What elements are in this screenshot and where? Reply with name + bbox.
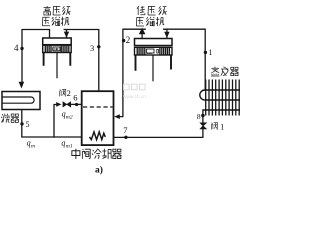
node 8 bbox=[201, 114, 205, 118]
svg-text:2: 2 bbox=[67, 88, 71, 98]
wire: condenser outlet to liquid line (node 5) bbox=[22, 110, 82, 138]
svg-text:5: 5 bbox=[26, 120, 30, 129]
arrow LP discharge up bbox=[139, 28, 146, 35]
wire: valve2 branch riser bbox=[54, 105, 58, 138]
node 4 bbox=[20, 47, 23, 50]
label: condenser bbox=[1, 114, 19, 123]
arrow LP suction down bbox=[164, 32, 169, 38]
svg-text:m2: m2 bbox=[66, 115, 73, 121]
compressor U2 (high pressure stage) bbox=[43, 38, 71, 78]
svg-text:m1: m1 bbox=[66, 144, 73, 150]
arrow into condenser bbox=[19, 82, 25, 89]
svg-text:a): a) bbox=[95, 164, 103, 175]
node 1 bbox=[204, 51, 207, 54]
label: intermediate cooler bbox=[72, 149, 122, 159]
wire: LP discharge to intermediate cooler (line 2) bbox=[117, 29, 145, 116]
svg-text:2: 2 bbox=[126, 35, 131, 45]
wire: cooler coil line left bbox=[82, 136, 90, 138]
wire: valve2 to cooler (node 6) bbox=[71, 103, 82, 105]
svg-text:q: q bbox=[27, 139, 31, 148]
wire: HP suction pipe (node3 riser to compressor top) bbox=[64, 30, 99, 91]
arrow into valve2 bbox=[56, 102, 61, 107]
arrow HP suction down bbox=[64, 32, 69, 38]
wire: cooler coil line right + liquid line to valve1 (node 7) bbox=[105, 129, 203, 137]
condenser bbox=[2, 92, 41, 110]
label: low pressure compressor bbox=[137, 6, 167, 15]
node 6 bbox=[75, 103, 78, 106]
wire: valve1 to evaporator (node 8) bbox=[202, 110, 204, 123]
node 5 bbox=[20, 122, 23, 125]
label: evaporator bbox=[211, 67, 239, 76]
evaporator coil bbox=[200, 80, 240, 116]
svg-text:m: m bbox=[31, 144, 35, 150]
svg-text:q: q bbox=[61, 139, 65, 148]
svg-text:8: 8 bbox=[197, 112, 201, 121]
arrow into cooler right wall bbox=[114, 114, 120, 119]
svg-text:1: 1 bbox=[209, 48, 213, 57]
valve V1 (vertical) bbox=[199, 123, 207, 130]
coil zigzag bbox=[90, 132, 106, 140]
label: valve 1 bbox=[212, 123, 218, 130]
wire: LP suction pipe from evaporator (line 1) bbox=[164, 29, 206, 90]
node 3 bbox=[97, 45, 100, 48]
compressor U1 (low pressure stage) bbox=[135, 39, 173, 82]
node 2 bbox=[122, 39, 125, 42]
svg-text:3: 3 bbox=[90, 43, 94, 53]
watermark bbox=[124, 84, 146, 90]
label: valve 2 bbox=[60, 89, 66, 96]
svg-text:7: 7 bbox=[123, 125, 127, 135]
wire: HP discharge pipe (compressor top to condenser, line 4) bbox=[22, 30, 50, 86]
svg-text:6: 6 bbox=[73, 93, 77, 103]
node 7 bbox=[124, 136, 127, 139]
valve V2 bbox=[63, 101, 71, 107]
wire: LP discharge riser bbox=[141, 29, 143, 39]
intermediate cooler vessel bbox=[82, 91, 114, 145]
svg-text:1: 1 bbox=[220, 122, 224, 131]
svg-text:www.zh.cn: www.zh.cn bbox=[123, 94, 146, 100]
label: high pressure compressor bbox=[44, 6, 71, 15]
svg-text:4: 4 bbox=[14, 43, 19, 53]
